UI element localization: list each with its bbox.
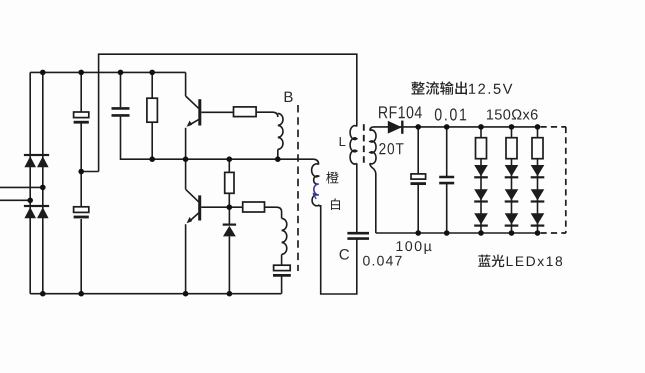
wire bridge left column — [29, 72, 31, 293]
capacitor C6 100u — [417, 127, 419, 233]
wire LED column 1 — [480, 127, 482, 233]
transformer T1 secondary winding — [370, 127, 374, 131]
wire output top rail — [374, 126, 538, 128]
label 150ohm x6 — [487, 109, 493, 119]
wire R1 leads — [151, 72, 153, 159]
diode D3 bridge lower-left — [24, 205, 37, 207]
label C — [340, 249, 349, 260]
capacitor C1 upper bus electrolytic — [74, 112, 89, 118]
label white wire — [331, 198, 340, 210]
LED7 — [531, 165, 545, 176]
wire primary return loop — [321, 205, 357, 294]
resistor R2 — [234, 107, 257, 117]
wire top link from capacitor midpoint to transformer primary top — [99, 54, 357, 171]
wire filter capacitor column — [80, 72, 82, 293]
wire snubber capacitor column — [121, 72, 153, 159]
wire AC input line 2 — [0, 199, 30, 201]
wire output bottom rail — [376, 232, 538, 234]
wire AC input line 1 — [0, 186, 43, 188]
resistor R4 — [243, 202, 265, 212]
wire LED column 3 — [537, 127, 539, 233]
inductor L2 lower feedback winding — [265, 207, 282, 218]
transistor Q1 — [186, 72, 234, 159]
resistor R5 150 ohm — [476, 138, 487, 159]
label blue LED x18 — [478, 255, 490, 267]
LED8 — [531, 189, 545, 200]
blue annotation middle turn and arrow — [314, 184, 319, 195]
LED6 — [505, 213, 519, 224]
dashed continuation box — [541, 127, 567, 233]
resistor R6 150 ohm — [506, 138, 517, 159]
transistor Q2 — [186, 159, 243, 294]
inductor L3 orange-white feedback winding — [313, 159, 319, 164]
wire bottom rail — [30, 293, 281, 295]
label 100u — [396, 241, 402, 251]
wire capacitor midpoint horizontal — [81, 171, 98, 173]
LED4 — [505, 165, 519, 176]
capacitor C2 lower bus electrolytic — [74, 207, 89, 213]
diode D6 RF104 — [388, 121, 402, 134]
wire top rail — [30, 71, 185, 73]
resistor R1 — [147, 98, 158, 122]
transformer T1 primary winding — [350, 126, 357, 164]
transformer T1 core — [363, 124, 365, 165]
diode D4 bridge lower-right — [37, 205, 50, 207]
LED3 — [474, 213, 488, 224]
resistor R3 — [228, 159, 230, 207]
label L — [340, 137, 346, 146]
transformer core dashed line (base drive side) — [297, 105, 299, 271]
wire bridge right column — [42, 72, 44, 293]
capacitor C3 — [112, 108, 130, 115]
LED2 — [474, 189, 488, 200]
diode D1 bridge upper-left — [24, 154, 37, 156]
LED1 — [474, 165, 488, 176]
resistor R7 150 ohm — [532, 138, 543, 159]
label 0.047 — [363, 256, 370, 266]
LED9 — [531, 213, 545, 224]
label 0.01 — [435, 108, 442, 120]
label orange wire — [326, 172, 339, 184]
LED5 — [505, 189, 519, 200]
wire LED column 2 — [511, 127, 513, 233]
label 20T — [379, 143, 385, 154]
wire mid rail — [152, 158, 313, 160]
capacitor C4 — [274, 265, 291, 270]
diode D5 — [228, 207, 230, 294]
node B label — [285, 92, 293, 102]
diode D2 bridge upper-right — [37, 154, 50, 156]
label RF104 — [379, 106, 387, 118]
capacitor C7 0.01 — [446, 127, 448, 233]
capacitor C5 0.047 — [347, 233, 369, 238]
inductor L1 upper feedback winding — [256, 112, 278, 117]
label rectified output 12.5V — [411, 81, 424, 94]
